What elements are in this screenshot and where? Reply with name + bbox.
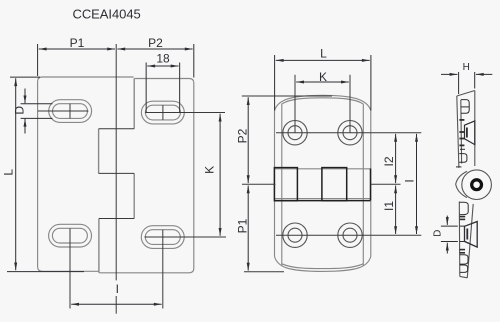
dim K line (left view) bbox=[219, 114, 221, 236]
slot top-left centerline bbox=[38, 110, 89, 112]
dim K (middle) line bbox=[296, 81, 349, 83]
upper hole slot profile bbox=[461, 100, 469, 114]
dim H arrows (outside) bbox=[441, 73, 457, 75]
dim I2 line bbox=[395, 134, 397, 183]
knuckle centerline right stub bbox=[371, 183, 401, 185]
slot top-right outer bbox=[141, 101, 184, 124]
hinge centerline upper bbox=[115, 44, 117, 280]
body right edge bbox=[370, 111, 372, 257]
slot bottom-right inner bbox=[145, 230, 180, 245]
knuckle joint line 3 bbox=[99, 218, 134, 220]
svg-text:P2: P2 bbox=[148, 36, 163, 50]
lower hole bore bbox=[460, 226, 465, 241]
svg-text:D: D bbox=[12, 106, 26, 115]
knuckle vertical edge 2 bbox=[98, 129, 100, 174]
body top outer curve bbox=[275, 95, 371, 110]
slot top-left center tick bbox=[69, 104, 71, 119]
dim 18 extension right bbox=[179, 63, 181, 113]
upper knuckle end profile bbox=[459, 154, 467, 163]
svg-text:L: L bbox=[320, 47, 327, 61]
svg-text:P1: P1 bbox=[235, 218, 249, 233]
hole top-left outer bbox=[283, 121, 307, 145]
svg-text:18: 18 bbox=[156, 52, 170, 66]
knuckle centerline left stub bbox=[242, 183, 276, 185]
body bottom inner curve bbox=[282, 264, 364, 269]
dim 18 line bbox=[147, 65, 178, 67]
dim I1 line bbox=[395, 186, 397, 235]
svg-text:D: D bbox=[432, 230, 443, 237]
barrel band bottom dark line bbox=[274, 200, 370, 202]
hole top-right inner bbox=[343, 126, 357, 140]
knuckle joint line 1 bbox=[99, 128, 135, 130]
dim P1 line bbox=[39, 48, 115, 50]
hole bottom-left inner bbox=[288, 228, 302, 242]
side top edge bbox=[457, 91, 475, 97]
dim D (side) extensions bbox=[441, 225, 458, 227]
dim D line with outer arrows bbox=[24, 89, 26, 104]
barrel outer circle bbox=[462, 170, 492, 200]
knuckle segment 3 edge bbox=[370, 169, 372, 201]
dim D extension bottom bbox=[21, 117, 53, 119]
dim L extension bottom bbox=[7, 271, 84, 273]
side left edge lower bbox=[458, 202, 461, 277]
upper countersink cone bbox=[465, 121, 475, 145]
side right edge lower bbox=[467, 204, 473, 278]
dim P1 extension left bbox=[37, 44, 39, 76]
hinge centerline lower bbox=[115, 296, 117, 314]
barrel band bottom line bbox=[275, 198, 371, 200]
slot bottom-right centerline to K bbox=[145, 236, 227, 238]
svg-text:K: K bbox=[202, 166, 216, 174]
lower knuckle profile 2 bbox=[460, 255, 468, 264]
bottom holes centerline bbox=[276, 234, 421, 236]
dim I line bbox=[71, 303, 161, 305]
dim P2 extension right bbox=[193, 44, 195, 78]
top holes centerline bbox=[276, 132, 421, 134]
lower leaf ticks bbox=[460, 216, 466, 218]
svg-text:P2: P2 bbox=[235, 128, 249, 143]
K extension left bbox=[294, 75, 296, 133]
svg-text:I2: I2 bbox=[382, 156, 396, 166]
body inner left edge bbox=[281, 104, 283, 266]
dim L (middle) line bbox=[276, 59, 370, 61]
knuckle segment 2 bbox=[322, 168, 347, 201]
upper leaf end line bbox=[456, 166, 462, 168]
lower knuckle end profile bbox=[460, 202, 469, 214]
slot top-left inner bbox=[53, 104, 88, 119]
lower countersink cone bbox=[465, 222, 478, 248]
slot bottom-left extension to I bbox=[69, 229, 71, 309]
knuckle vertical edge 4 bbox=[98, 219, 100, 273]
dim H extensions bbox=[458, 72, 460, 94]
dim D extension top bbox=[21, 103, 53, 105]
dim D (side) arrows (outside) bbox=[446, 216, 448, 225]
body left edge bbox=[274, 111, 276, 257]
svg-text:L: L bbox=[1, 169, 15, 176]
upper leaf tick bbox=[460, 148, 465, 150]
hole bottom-left outer bbox=[283, 223, 307, 247]
slot bottom-left outer bbox=[49, 224, 92, 247]
slot bottom-left inner bbox=[52, 228, 87, 243]
knuckle joint line 2 bbox=[99, 172, 135, 174]
dim L extension top bbox=[10, 76, 40, 78]
knuckle vertical edge 1 bbox=[133, 79, 135, 129]
side bottom edge bbox=[460, 276, 468, 277]
svg-text:P1: P1 bbox=[70, 36, 85, 50]
knuckle vertical edge 3 bbox=[133, 173, 135, 218]
side inner line upper bbox=[460, 100, 463, 164]
dim I line (middle) bbox=[416, 134, 418, 234]
dim L (middle) extensions bbox=[274, 55, 276, 111]
dim L line bbox=[15, 78, 17, 270]
body bottom outer curve bbox=[275, 257, 371, 272]
dim P2 line (middle) bbox=[247, 97, 249, 183]
hole top-left inner bbox=[288, 126, 302, 140]
dim P2 line bbox=[117, 48, 192, 50]
slot top-right inner bbox=[145, 105, 180, 120]
hole top-right outer bbox=[338, 121, 362, 145]
lower leaf ticks below bbox=[460, 249, 465, 251]
body top inner curve bbox=[282, 98, 364, 104]
barrel band top line bbox=[275, 168, 371, 170]
slot top-right centerline to K bbox=[145, 112, 225, 114]
slot top-left outer bbox=[49, 100, 92, 123]
svg-text:I: I bbox=[116, 282, 119, 296]
dim 18 extension left bbox=[145, 63, 147, 113]
P2 top extension bbox=[242, 95, 332, 97]
svg-text:CCEAI4045: CCEAI4045 bbox=[73, 6, 141, 21]
side left edge upper bbox=[457, 96, 459, 168]
hole bottom-right inner bbox=[343, 228, 357, 242]
slot top-right center tick bbox=[162, 105, 164, 120]
P1 bottom extension bbox=[244, 271, 284, 273]
svg-text:K: K bbox=[319, 70, 327, 84]
upper hole edge ticks bbox=[459, 119, 464, 121]
right leaf outline bbox=[99, 79, 194, 273]
lower knuckle profile 3 bbox=[460, 265, 468, 272]
body inner right edge bbox=[362, 104, 364, 266]
slot bottom-right outer bbox=[141, 226, 184, 249]
svg-text:I: I bbox=[402, 179, 416, 182]
hinge pin ring bbox=[472, 180, 482, 190]
hole bottom-right outer bbox=[338, 223, 362, 247]
barrel cusp bbox=[456, 171, 467, 197]
dim P1 line (middle) bbox=[247, 186, 249, 271]
left leaf outline bbox=[38, 77, 134, 271]
svg-text:H: H bbox=[463, 62, 470, 73]
svg-text:I1: I1 bbox=[382, 201, 396, 211]
knuckle segment 1 bbox=[274, 168, 297, 201]
side right edge upper bbox=[474, 91, 476, 167]
slot bottom-right extension to I bbox=[162, 230, 164, 309]
K extension right bbox=[349, 75, 351, 133]
